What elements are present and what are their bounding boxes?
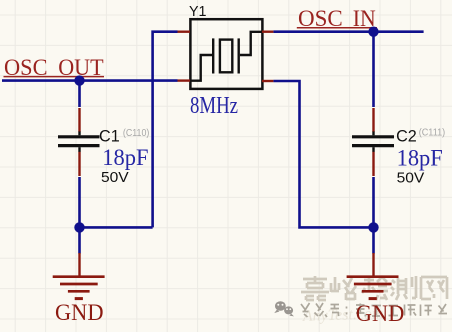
pin Y1.4 (right bottom) <box>262 80 273 82</box>
svg-text:(C111): (C111) <box>419 128 446 139</box>
pin C2 top lead <box>372 108 374 132</box>
designator Y1 <box>189 3 207 20</box>
pin Y1.2 (left bottom) <box>178 79 191 81</box>
pin C2 bottom lead <box>372 152 374 176</box>
designator C2 <box>396 128 417 146</box>
value 50V (C1) <box>101 170 129 186</box>
wire C2 top branch <box>372 32 375 107</box>
junction dot D (right ground) <box>368 222 378 232</box>
ground symbol left <box>53 253 105 299</box>
designator C1 <box>99 127 120 145</box>
value 18pF (C2) <box>397 146 443 171</box>
svg-text:(C110): (C110) <box>123 128 149 139</box>
ground label GND left <box>55 300 104 326</box>
svg-text:Y1: Y1 <box>189 3 207 20</box>
svg-text:GND: GND <box>356 301 405 327</box>
value 8MHz <box>190 93 238 119</box>
svg-text:GND: GND <box>55 300 104 326</box>
pin Y1.1 (left top) <box>178 31 191 33</box>
net label OSC_IN <box>297 6 377 31</box>
capacitor C2 <box>352 131 394 152</box>
wire C2 bottom branch <box>372 177 375 254</box>
wire C1 top branch <box>78 81 81 107</box>
svg-text:18pF: 18pF <box>397 146 443 171</box>
wire Y1 lower-right pin to right GND junction <box>273 81 373 227</box>
junction dot A (OSC_OUT / C1) <box>74 75 84 85</box>
comment (C110) <box>123 128 149 139</box>
net label OSC_OUT <box>4 55 105 80</box>
svg-text:50V: 50V <box>397 171 425 187</box>
junction dot C (left ground) <box>74 222 84 232</box>
wire bottom-left horizontal to GND junction <box>80 226 153 229</box>
crystal Y1 <box>189 19 263 89</box>
svg-text:18pF: 18pF <box>102 145 148 170</box>
watermark large grey CJK text (fake strokes) <box>301 276 447 300</box>
pin Y1.3 (right top) <box>262 31 273 33</box>
wire left vertical (Y1 pin to ground net) <box>153 32 178 228</box>
value 50V (C2) <box>397 171 425 187</box>
ground label GND right <box>356 301 405 327</box>
svg-text:8MHz: 8MHz <box>190 93 238 119</box>
capacitor C1 <box>58 131 100 152</box>
watermark wechat icon <box>274 301 294 316</box>
wire C1 bottom branch <box>78 177 81 254</box>
pin C1 bottom lead <box>78 152 80 176</box>
ground symbol right <box>347 253 399 299</box>
watermark small grey CJK caption (fake strokes) <box>301 303 447 317</box>
svg-text:50V: 50V <box>101 170 129 186</box>
svg-text:C1: C1 <box>99 127 120 145</box>
value 18pF (C1) <box>102 145 148 170</box>
pin C1 top lead <box>78 108 80 132</box>
watermark faint italic latin <box>302 305 384 325</box>
wire OSC_IN horizontal <box>273 30 423 33</box>
svg-text:C2: C2 <box>396 128 417 146</box>
junction dot B (OSC_IN / C2) <box>368 27 378 37</box>
wire OSC_OUT horizontal <box>2 79 178 82</box>
comment (C111) <box>419 128 446 139</box>
